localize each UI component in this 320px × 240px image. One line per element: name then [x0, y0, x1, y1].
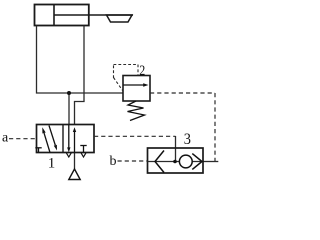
- svg-text:2: 2: [139, 62, 145, 79]
- svg-text:1: 1: [48, 155, 56, 171]
- svg-text:3: 3: [184, 131, 192, 149]
- svg-text:b: b: [110, 154, 117, 169]
- svg-text:a: a: [2, 131, 9, 146]
